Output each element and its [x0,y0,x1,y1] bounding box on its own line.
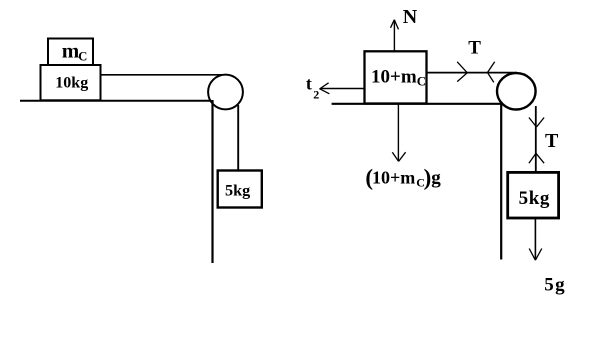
svg-text:T: T [545,130,559,152]
svg-text:C: C [78,50,87,64]
svg-text:5g: 5g [544,275,566,296]
svg-text:N: N [403,6,418,28]
svg-text:10kg: 10kg [55,75,88,92]
svg-text:5kg: 5kg [519,188,550,209]
svg-text:T: T [468,38,481,59]
svg-text:m: m [62,39,80,63]
svg-text:10+m: 10+m [372,168,415,188]
svg-text:g: g [431,168,441,189]
svg-text:2: 2 [313,88,319,102]
svg-text:): ) [424,165,432,190]
svg-text:C: C [417,74,426,89]
svg-text:10+m: 10+m [371,67,417,88]
svg-text:5kg: 5kg [225,182,250,200]
svg-text:t: t [306,74,312,94]
